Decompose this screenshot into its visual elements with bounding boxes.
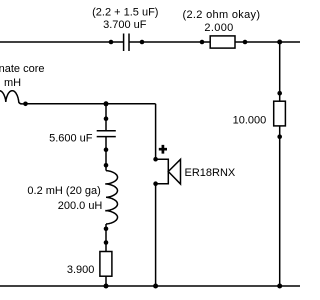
capacitor 3.700 uF (series, horizontal) — [109, 34, 145, 52]
svg-text:(2.2 + 1.5 uF): (2.2 + 1.5 uF) — [92, 7, 158, 19]
svg-text:200.0 uH: 200.0 uH — [58, 200, 103, 212]
speaker ER18RNX — [153, 145, 180, 186]
wire: branch corner down to speaker — [155, 104, 157, 159]
inductor 200.0 uH (shunt, vertical) — [104, 163, 118, 231]
resistor 2.000 (series, horizontal) — [200, 36, 248, 48]
node: resistor 3.900 to bottom rail — [104, 284, 109, 289]
svg-text:5.600 uF: 5.600 uF — [49, 133, 93, 145]
wire: node to right edge — [280, 41, 300, 43]
wire: bottom return rail — [0, 285, 300, 287]
wire: junction down to capacitor 5.600 uF — [105, 104, 107, 119]
svg-text:2.000: 2.000 — [204, 22, 233, 34]
wire: capacitor to inductor 200.0 uH — [105, 150, 107, 166]
wire: capacitor to resistor 2.000 — [142, 41, 202, 43]
wire: inductor to resistor 3.900 — [105, 229, 107, 243]
wire: resistor 2.000 to node — [245, 41, 280, 43]
wire: resistor 10.000 down to bottom rail — [279, 137, 281, 286]
svg-text:laminate core: laminate core — [0, 63, 45, 75]
node: top-right junction — [277, 40, 282, 45]
svg-text:3.700 uF: 3.700 uF — [103, 19, 147, 31]
svg-text:3.900: 3.900 — [67, 264, 95, 276]
svg-text:10.000: 10.000 — [233, 115, 267, 127]
wire: top input rail from left edge to capacitor — [0, 41, 111, 43]
wire: inductor to speaker branch corner — [26, 103, 156, 105]
node: speaker branch to bottom rail — [153, 284, 158, 289]
resistor 10.000 (shunt, vertical) — [274, 91, 286, 139]
node: resistor 10.000 branch to bottom rail — [277, 284, 282, 289]
svg-text:ER18RNX: ER18RNX — [185, 167, 236, 179]
resistor 3.900 (shunt, vertical) — [100, 240, 112, 286]
inductor mH (laminate core, partially cut by left edge) — [0, 91, 28, 106]
svg-text:(2.2 ohm okay): (2.2 ohm okay) — [182, 9, 260, 21]
wire: node down to resistor 10.000 — [279, 42, 281, 93]
node: junction to midrange filter branch — [104, 101, 109, 106]
wire: speaker down to bottom rail — [155, 184, 157, 286]
svg-text:mH: mH — [4, 77, 21, 89]
svg-text:0.2 mH (20 ga): 0.2 mH (20 ga) — [27, 185, 100, 197]
capacitor 5.600 uF (shunt, vertical) — [97, 116, 116, 152]
